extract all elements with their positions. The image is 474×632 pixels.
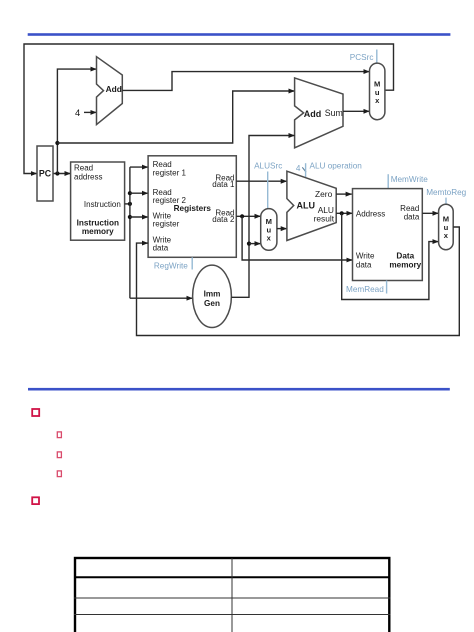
node: PC value branch junction	[55, 141, 59, 145]
svg-text:Data: Data	[396, 252, 414, 261]
svg-text:Imm: Imm	[204, 289, 221, 298]
svg-text:Address: Address	[356, 209, 385, 218]
svg-text:RegWrite: RegWrite	[154, 261, 188, 270]
control line ALUSrc tick	[267, 172, 269, 209]
adder Add (PC+4)	[97, 57, 123, 125]
node: ALU result junction	[340, 211, 344, 215]
control line ALU operation tick	[305, 163, 307, 177]
register PC	[37, 146, 53, 201]
wire: instruction bus vertical	[129, 167, 131, 298]
node: instruction bus junction rr2	[128, 191, 132, 195]
svg-text:Add: Add	[304, 109, 322, 119]
ALU	[287, 171, 336, 240]
bullet level1 first	[32, 409, 39, 416]
wire: PC value across to branch Add top input	[57, 91, 294, 143]
svg-text:Sum: Sum	[325, 108, 343, 118]
svg-text:Registers: Registers	[174, 204, 212, 213]
svg-text:register: register	[153, 219, 180, 228]
control line MemtoReg tick	[445, 198, 447, 205]
svg-text:MemRead: MemRead	[346, 285, 384, 294]
node: immediate branch junction	[247, 242, 251, 246]
wire: write-back from MemtoReg mux to registers write data	[137, 227, 460, 336]
svg-text:data 2: data 2	[212, 215, 235, 224]
svg-text:Add: Add	[106, 84, 122, 94]
node: read data 2 junction	[240, 214, 244, 218]
svg-text:4: 4	[75, 107, 80, 118]
svg-text:data: data	[153, 244, 169, 253]
title underline bottom	[28, 388, 450, 391]
mux PCSrc	[370, 63, 385, 120]
bullet level2 second	[57, 452, 61, 458]
wire: ALUSrc mux output to ALU bottom input	[277, 228, 287, 230]
control line MemRead tick	[386, 281, 388, 294]
svg-text:PC: PC	[39, 169, 52, 179]
bullet level2 third	[57, 471, 61, 477]
wire: mux PCSrc output around top frame to PC input	[24, 44, 394, 174]
table header separator	[74, 576, 390, 578]
wire: PC output to instruction memory read address	[53, 173, 71, 175]
table row line 2	[74, 597, 390, 599]
svg-text:ALU operation: ALU operation	[310, 161, 363, 170]
svg-text:Zero: Zero	[315, 189, 333, 199]
wire: instruction to Read register 1	[130, 166, 148, 168]
svg-text:register 1: register 1	[153, 168, 187, 177]
wire: ALU result bypass to MemtoReg mux bottom input	[342, 213, 439, 299]
bus width slash	[302, 167, 306, 172]
table frame	[75, 558, 389, 632]
data memory block	[353, 189, 423, 281]
imm gen ellipse	[193, 265, 232, 327]
wire: instruction memory output to instruction bus	[125, 203, 130, 205]
wire: Add (PC+4) output to Mux top input	[122, 72, 369, 91]
instruction memory block	[71, 162, 125, 240]
mux ALUSrc	[261, 209, 277, 251]
node: instruction bus junction wr	[128, 215, 132, 219]
mux MemtoReg	[439, 204, 454, 250]
wire: Read data 2 to ALUSrc mux top input	[236, 215, 260, 217]
svg-text:Instruction: Instruction	[84, 200, 121, 209]
svg-text:MemtoReg: MemtoReg	[426, 188, 466, 197]
svg-text:Gen: Gen	[204, 299, 220, 308]
wire: PC value up to Add (PC+4) input	[57, 69, 96, 173]
svg-text:memory: memory	[389, 260, 421, 269]
wire: immediate to ALUSrc mux bottom input	[249, 243, 261, 245]
wire: Read data 1 to ALU top input	[236, 180, 287, 182]
wire: branch Add Sum output to Mux bottom input	[343, 110, 370, 112]
svg-text:MemWrite: MemWrite	[391, 175, 429, 184]
svg-text:data: data	[356, 260, 372, 269]
wire: Imm Gen output up to branch Add bottom input	[231, 136, 294, 298]
node: instruction output junction	[128, 202, 132, 206]
node: PC output junction	[55, 171, 59, 175]
control line MemWrite tick	[387, 174, 389, 188]
table column divider	[231, 558, 233, 632]
table row line 3	[74, 614, 390, 616]
wire: ALU result to data memory address	[336, 212, 352, 214]
wire: Zero output	[336, 193, 352, 195]
wire: data memory read data to MemtoReg mux top input	[422, 212, 438, 214]
registers block	[148, 156, 236, 257]
adder Add (branch target)	[295, 78, 343, 148]
svg-text:4: 4	[296, 164, 301, 173]
svg-text:data: data	[404, 212, 420, 221]
svg-text:PCSrc: PCSrc	[350, 53, 374, 62]
wire: instruction to Imm Gen input	[130, 297, 193, 299]
wire: instruction to Read register 2	[130, 192, 148, 194]
control line PCSrc tick	[376, 50, 378, 64]
svg-text:data 1: data 1	[212, 180, 235, 189]
bullet level2 first	[57, 432, 61, 438]
svg-text:Read: Read	[74, 164, 93, 173]
svg-text:ALUSrc: ALUSrc	[254, 162, 282, 171]
wire: constant 4 into Add bottom input	[84, 111, 97, 113]
control line RegWrite tick	[191, 257, 193, 269]
wire: instruction to Write register	[130, 216, 148, 218]
svg-text:address: address	[74, 173, 102, 182]
svg-text:result: result	[314, 213, 335, 223]
svg-text:memory: memory	[82, 227, 114, 236]
svg-text:Write: Write	[356, 252, 375, 261]
bullet level1 second	[32, 497, 39, 504]
wire: read data 2 down to data memory write data	[242, 216, 352, 260]
svg-text:ALU: ALU	[297, 201, 316, 211]
title underline top	[28, 33, 451, 36]
